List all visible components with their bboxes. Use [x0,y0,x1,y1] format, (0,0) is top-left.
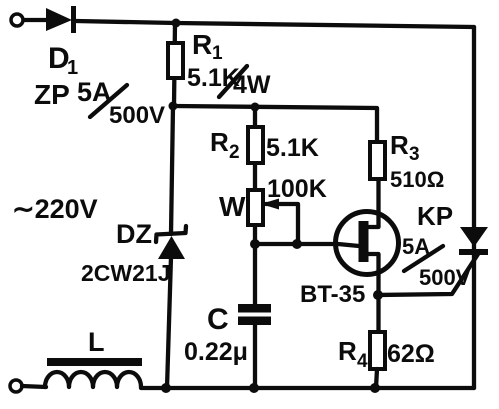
label 5A rating of D1 [77,77,112,107]
wire left vertical upper (R1 leads) [174,23,175,106]
svg-text:1: 1 [212,43,223,64]
inductor L core bar [47,358,142,366]
terminal bottom-left [10,380,22,392]
label 5.1K value of R2 [266,134,319,162]
svg-text:ZP: ZP [34,79,70,110]
label ~220V [12,194,98,224]
label R1 [192,29,223,64]
wire left vertical lower (zener to bottom) [167,257,171,388]
label L [88,327,105,357]
resistor R1 [168,43,183,78]
wire top from terminal to diode [24,18,48,22]
thyristor KP [459,227,488,255]
wire gate to thyristor [378,251,480,295]
svg-text:510Ω: 510Ω [390,167,444,192]
node junction top of R2 [251,103,260,112]
label KP [417,201,453,231]
wire horizontal bus R1-bottom to R3 [174,106,377,145]
diode D1 [46,6,76,33]
svg-text:R: R [210,127,229,157]
label 100K value of W [267,175,327,203]
potentiometer W body [248,190,263,225]
label 5A rating of KP [402,234,430,259]
node junction bottom cap-line [249,383,259,393]
label R2 [210,127,240,163]
node junction top of R1 [172,19,181,28]
svg-text:5.1K: 5.1K [266,134,319,162]
label BT-35 [300,281,365,308]
node junction gate [373,290,383,300]
svg-text:R: R [192,29,212,60]
transistor base2 lead to R3 [366,145,379,227]
label DZ [116,219,152,249]
resistor R2 [248,127,263,163]
zener diode DZ [156,226,186,259]
svg-text:100K: 100K [267,175,327,203]
svg-text:62Ω: 62Ω [387,340,435,368]
svg-text:2: 2 [229,142,240,163]
wire top from diode to right corner [76,21,474,27]
svg-text:2CW21J: 2CW21J [81,260,170,286]
svg-text:1: 1 [67,57,78,79]
svg-text:L: L [88,327,105,357]
transistor base bar [359,221,369,262]
wire right vertical [472,27,476,388]
transistor Q1 BT-35 circle [336,212,399,275]
wire bottom bus [141,386,474,390]
wire R4 bottom lead [376,369,377,388]
node junction wiper to emitter wire [292,239,302,249]
label W [219,191,246,222]
svg-text:C: C [207,303,229,336]
svg-text:R: R [338,336,357,366]
label 500V rating of D1 [109,102,165,129]
capacitor C [238,304,271,325]
potentiometer W wiper arrow [261,199,298,243]
label C [207,303,229,336]
wire emitter horizontal [255,242,340,246]
svg-text:0.22μ: 0.22μ [184,338,248,366]
inductor L coil [45,372,141,387]
label 2CW21J value of DZ [81,260,170,286]
label 0.22u value of C [184,338,248,366]
terminal top-left [11,14,23,26]
resistor R3 [370,142,385,179]
label D1 [48,42,78,79]
transistor base1 lead down [366,254,379,334]
label 62ohm value of R4 [387,340,435,368]
node junction bottom left-line [161,383,171,393]
svg-text:DZ: DZ [116,219,152,249]
label R4 [338,336,368,372]
wire left vertical middle (junction to zener) [171,106,173,234]
label 500V rating of KP [419,265,471,290]
label R3 [390,130,420,165]
svg-text:3: 3 [409,144,420,165]
label 5.1K/4W value of R1 [187,64,271,99]
svg-text:5.1K: 5.1K [187,64,240,92]
wire R2 branch vertical [253,107,257,305]
node junction bottom R4-line [370,383,380,393]
wire cap bottom to bottom bus [253,325,257,388]
svg-text:KP: KP [417,201,453,231]
svg-text:R: R [390,130,409,160]
svg-text:∼220V: ∼220V [12,194,98,224]
label slash KP rating [404,246,443,271]
svg-text:500V: 500V [419,265,471,290]
wire terminal to inductor [22,386,46,387]
svg-text:BT-35: BT-35 [300,281,365,308]
label 510ohm value of R3 [390,167,444,192]
label slash D1 rating [90,85,127,117]
svg-text:4: 4 [357,351,368,372]
node junction left mid [169,102,178,111]
label ZP [34,79,70,110]
transistor emitter inner lead [338,244,359,246]
svg-text:4W: 4W [233,71,271,99]
node junction pot bottom [250,239,260,249]
svg-text:500V: 500V [109,102,165,129]
svg-text:W: W [219,191,246,222]
resistor R4 [370,332,385,369]
